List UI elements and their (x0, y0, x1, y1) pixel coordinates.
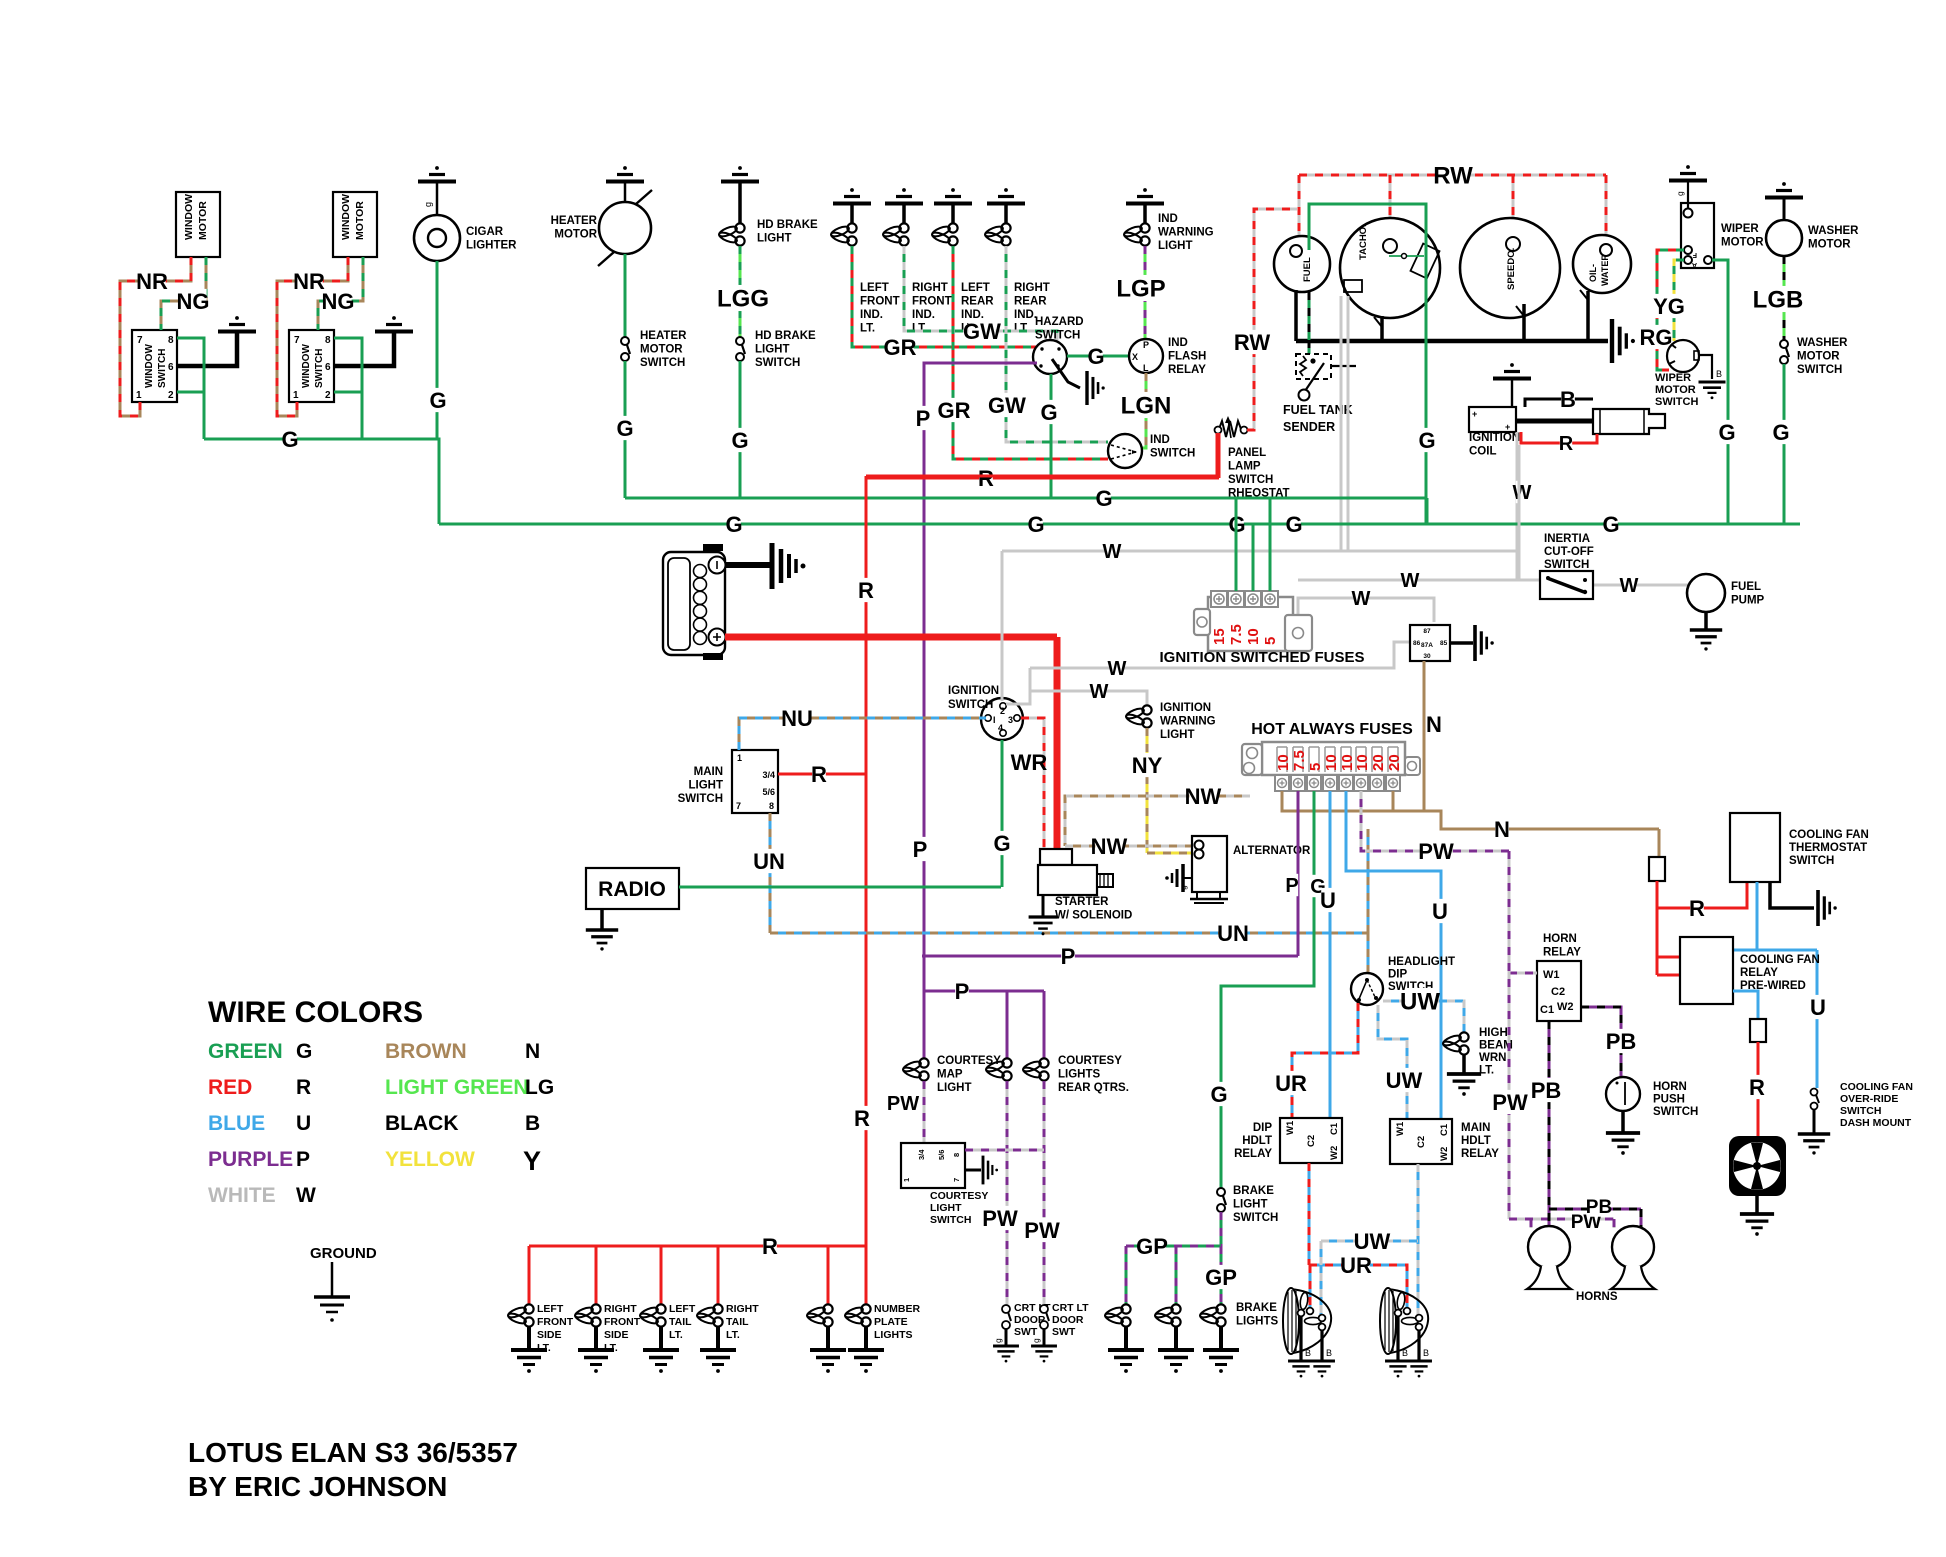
svg-text:DIP: DIP (1253, 1122, 1273, 1134)
svg-text:GR: GR (884, 335, 917, 360)
svg-text:LEFT: LEFT (537, 1303, 564, 1315)
starter body (1038, 865, 1097, 895)
label UN bus (1219, 921, 1246, 945)
W relay86 line (1030, 642, 1410, 668)
brake lamp stem 1 (1124, 1327, 1128, 1349)
side lamp 5 (823, 1304, 832, 1313)
svg-text:FUEL: FUEL (1302, 257, 1313, 282)
brake lamp stem 2 (1174, 1327, 1178, 1349)
fan ground stem (1755, 1196, 1759, 1213)
ignition warning lamp (1142, 705, 1151, 714)
label RW bus (1438, 162, 1468, 188)
svg-text:3: 3 (1008, 715, 1013, 725)
label LGG (721, 285, 766, 311)
svg-text:SWT: SWT (1052, 1326, 1076, 1338)
RW drop speedo (1512, 175, 1515, 238)
svg-text:IND.: IND. (912, 309, 935, 321)
svg-text:MOTOR: MOTOR (354, 201, 366, 240)
svg-text:LOTUS ELAN S3 36/5357: LOTUS ELAN S3 36/5357 (188, 1437, 518, 1468)
hd brake light switch (736, 337, 744, 345)
courtesy light lamp 2 (1039, 1058, 1048, 1067)
label G busA (1097, 486, 1111, 510)
svg-text:WINDOW: WINDOW (144, 344, 155, 388)
svg-text:SWITCH: SWITCH (157, 349, 168, 388)
heater ground (623, 166, 627, 170)
svg-text:WINDOW: WINDOW (340, 194, 352, 240)
svg-text:UN: UN (753, 849, 785, 874)
svg-text:OIL-: OIL- (1588, 264, 1598, 282)
P courtesy drop 1 (1006, 991, 1009, 1062)
svg-text:IND.: IND. (1014, 309, 1037, 321)
side lamp ground 6 (848, 1348, 884, 1352)
cooling connector 2 (1750, 1019, 1766, 1042)
label RW vert (1238, 330, 1265, 354)
svg-text:P: P (916, 406, 931, 431)
label W relay feed (1355, 587, 1367, 609)
speedo drop (1522, 304, 1526, 341)
ign fuse terminal 3 (1245, 591, 1261, 607)
svg-text:W: W (1620, 575, 1639, 597)
svg-text:HEADLIGHT: HEADLIGHT (1388, 956, 1455, 968)
hazard G down (1050, 374, 1053, 498)
ign fuse terminal 1 (1211, 591, 1227, 607)
side lamp stem 5 (826, 1327, 830, 1349)
coil B wire (1525, 399, 1593, 407)
high beam lamp (1459, 1032, 1468, 1041)
side lamp stem 4 (716, 1327, 720, 1349)
label UR dip (1277, 1071, 1304, 1095)
svg-text:HD BRAKE: HD BRAKE (757, 219, 818, 231)
label B coil (1561, 387, 1575, 411)
svg-text:WINDOW: WINDOW (183, 194, 195, 240)
hazard switch body (1033, 340, 1067, 374)
washer G wire (1783, 364, 1786, 524)
svg-text:LIGHTS: LIGHTS (874, 1329, 913, 1341)
wire R rheostat (1218, 433, 1221, 478)
svg-text:UR: UR (1340, 1253, 1372, 1278)
wiper terminal A (1684, 256, 1692, 264)
label G hdbrake (733, 428, 747, 452)
svg-text:LT.: LT. (912, 323, 927, 335)
fuel pump body (1687, 574, 1725, 612)
svg-text:U: U (296, 1112, 311, 1135)
W pin2 branch (1006, 668, 1030, 704)
label PW door1 (986, 1206, 1013, 1230)
svg-text:G: G (1772, 420, 1789, 445)
svg-text:PW: PW (1492, 1090, 1528, 1115)
oil-water gauge (1573, 235, 1631, 293)
cigar ground (435, 166, 439, 170)
svg-text:WARNING: WARNING (1160, 716, 1216, 728)
UR to dip relay (1292, 1003, 1358, 1118)
svg-text:15: 15 (1211, 628, 1228, 645)
hazard lever (1052, 359, 1080, 388)
svg-text:87: 87 (1423, 628, 1431, 635)
override ground (1798, 1132, 1830, 1136)
label R thermo (1690, 896, 1704, 920)
svg-text:GP: GP (1136, 1234, 1168, 1259)
W ignition vertical (1001, 551, 1004, 701)
headlamp1 ground b (1309, 1360, 1335, 1363)
svg-text:SWITCH: SWITCH (1797, 364, 1842, 376)
label W coil (1516, 481, 1528, 503)
svg-text:W: W (1103, 541, 1122, 563)
P courtesy drop 2 (1043, 991, 1046, 1062)
label G washer (1774, 420, 1788, 444)
headlamp left (1290, 1289, 1331, 1353)
svg-text:I: I (993, 715, 996, 725)
svg-text:N: N (1494, 817, 1510, 842)
svg-text:7: 7 (952, 1178, 961, 1182)
speedo gauge (1460, 218, 1560, 318)
N fuse8 wire (1393, 791, 1659, 829)
door switch stem 2 (1043, 1329, 1046, 1345)
label G busB 5 (1604, 512, 1618, 536)
GP switch drop (1220, 1212, 1223, 1246)
wiper switch ground (1699, 381, 1726, 384)
override stem (1813, 1110, 1816, 1133)
radio ground (586, 928, 618, 932)
cigar lighter body (414, 215, 460, 261)
svg-text:SWITCH: SWITCH (1653, 1106, 1698, 1118)
wire NY (1146, 728, 1149, 853)
PW horn vertical (1508, 851, 1511, 1219)
svg-text:P: P (296, 1148, 310, 1171)
label G fuse3 (1312, 875, 1324, 897)
cooling fan override switch (1811, 1089, 1818, 1096)
svg-text:B: B (525, 1112, 540, 1135)
label UW link (1358, 1229, 1385, 1253)
svg-text:W: W (1513, 482, 1532, 504)
UW to highbeam (1383, 1001, 1464, 1032)
battery negative cable (725, 562, 772, 568)
side lamp stem 1 (527, 1327, 531, 1349)
svg-text:C1: C1 (1439, 1123, 1450, 1136)
label GP drop3 (1207, 1265, 1234, 1289)
svg-text:COURTESY: COURTESY (1058, 1055, 1122, 1067)
cooling fan body (1729, 1136, 1786, 1196)
courtesy map light lamp (919, 1058, 928, 1067)
svg-text:SWITCH: SWITCH (678, 793, 723, 805)
battery body (663, 552, 725, 655)
side lamp ground 2 (578, 1348, 614, 1352)
svg-text:LT.: LT. (860, 323, 875, 335)
starter ground stem (1042, 895, 1045, 916)
svg-text:L: L (1143, 363, 1149, 373)
headlamp1 ground a (1288, 1360, 1314, 1363)
svg-text:RELAY: RELAY (1234, 1148, 1272, 1160)
svg-text:OVER-RIDE: OVER-RIDE (1840, 1093, 1898, 1105)
svg-text:SWITCH: SWITCH (1233, 1212, 1278, 1224)
fuel gauge (1274, 236, 1330, 292)
heater motor switch (621, 337, 629, 345)
label NR 2 (295, 269, 322, 293)
svg-text:3/4: 3/4 (917, 1149, 926, 1160)
ign fuse terminal 4 (1262, 591, 1278, 607)
ws2 pin8 wire G (334, 338, 362, 439)
relay85 ground lead (1450, 641, 1473, 645)
svg-text:3/4: 3/4 (762, 770, 775, 780)
svg-text:HEATER: HEATER (551, 215, 598, 227)
svg-text:R: R (854, 1106, 870, 1131)
label P mid (913, 837, 927, 861)
label G radio (995, 831, 1009, 855)
indicator lamp 4 (1001, 223, 1010, 232)
side lamp ground 4 (700, 1348, 736, 1352)
label NU (783, 706, 810, 730)
svg-text:Y: Y (523, 1146, 541, 1176)
svg-text:IND: IND (1168, 337, 1188, 349)
svg-text:G: G (1027, 512, 1044, 537)
svg-text:5: 5 (1307, 763, 1324, 771)
high beam ground (1447, 1072, 1481, 1076)
svg-text:GROUND: GROUND (310, 1245, 377, 1262)
svg-text:10: 10 (1354, 754, 1371, 771)
svg-text:NR: NR (293, 269, 325, 294)
coil ground (1510, 363, 1514, 367)
label PB push (1607, 1029, 1634, 1053)
svg-text:SWITCH: SWITCH (755, 357, 800, 369)
svg-text:WASHER: WASHER (1797, 337, 1848, 349)
svg-text:N: N (1426, 712, 1442, 737)
svg-text:8: 8 (769, 801, 774, 811)
svg-text:SIDE: SIDE (604, 1329, 629, 1341)
svg-text:G: G (1418, 428, 1435, 453)
svg-text:DIP: DIP (1388, 969, 1408, 981)
fuel pump ground stem (1704, 612, 1708, 629)
svg-text:WIPER: WIPER (1721, 223, 1759, 235)
crt door switch 1 (1002, 1305, 1010, 1313)
svg-text:SIDE: SIDE (537, 1329, 562, 1341)
svg-text:TAIL: TAIL (726, 1316, 749, 1328)
wiper terminal right (1704, 256, 1712, 264)
svg-text:C1: C1 (1329, 1122, 1340, 1135)
UN bus (770, 932, 1368, 935)
svg-text:R: R (978, 466, 994, 491)
label PW door2 (1028, 1218, 1055, 1242)
R cooling stub1 (1657, 956, 1682, 959)
label G heater (618, 416, 632, 440)
label NG 2 (324, 289, 351, 313)
svg-text:PB: PB (1586, 1197, 1612, 1218)
G fuse3 wire (1221, 791, 1314, 1190)
instrument bus black (1296, 339, 1608, 344)
wire YG (1674, 260, 1684, 341)
svg-text:LIGHTS: LIGHTS (1236, 1316, 1278, 1328)
svg-text:WARNING: WARNING (1158, 227, 1214, 239)
ignition coil box (1469, 407, 1516, 432)
washer ground stem (1783, 198, 1786, 220)
indicator lamp 2 (899, 223, 908, 232)
battery positive cable down (1054, 637, 1061, 851)
oil drop (1586, 291, 1590, 341)
svg-text:TAIL: TAIL (669, 1316, 692, 1328)
window switch 2 (289, 330, 334, 402)
svg-text:SPEEDO.: SPEEDO. (1506, 248, 1517, 290)
headlight dip switch body (1351, 973, 1383, 1005)
svg-text:B: B (1326, 1348, 1332, 1358)
svg-text:5/6: 5/6 (937, 1150, 946, 1160)
label W relay86 (1111, 657, 1123, 679)
label G busB 3 (1230, 512, 1244, 536)
wire LGB (1783, 256, 1786, 341)
R thermo link (1657, 883, 1747, 908)
svg-text:LT.: LT. (1014, 323, 1029, 335)
label R main bottom (855, 1106, 869, 1130)
svg-text:MOTOR: MOTOR (1655, 384, 1696, 396)
label WR (1015, 750, 1042, 774)
svg-text:PB: PB (1531, 1078, 1562, 1103)
label RG (1642, 325, 1669, 349)
svg-text:BRAKE: BRAKE (1233, 1185, 1274, 1197)
P fuse2 wire (1297, 791, 1300, 956)
svg-text:G: G (993, 831, 1010, 856)
svg-text:LIGHT: LIGHT (1158, 240, 1193, 252)
svg-text:W1: W1 (1285, 1120, 1296, 1135)
coil-distributor thick bar (1516, 419, 1593, 424)
svg-text:R: R (762, 1234, 778, 1259)
NW lower (1065, 845, 1193, 848)
svg-text:LIGHT: LIGHT (689, 780, 724, 792)
svg-text:W/ SOLENOID: W/ SOLENOID (1055, 910, 1132, 922)
svg-text:G: G (281, 427, 298, 452)
svg-text:20: 20 (1386, 754, 1403, 771)
wire GW right front (904, 246, 1057, 341)
svg-text:LEFT: LEFT (669, 1303, 696, 1315)
svg-text:7.5: 7.5 (1291, 750, 1308, 771)
wire RG (1657, 250, 1684, 370)
svg-text:MAIN: MAIN (694, 766, 723, 778)
svg-text:RIGHT: RIGHT (726, 1303, 759, 1315)
starter ground (1029, 915, 1058, 918)
label GR lower (940, 398, 967, 422)
label U fuse5 (1433, 899, 1447, 923)
headlamp1 stem a (1299, 1316, 1302, 1360)
brake lamp stem 3 (1219, 1327, 1223, 1349)
svg-text:LGP: LGP (1116, 276, 1165, 303)
brake lamp 1 (1121, 1304, 1130, 1313)
fuel pump ground (1690, 628, 1722, 632)
svg-text:LGG: LGG (717, 286, 769, 313)
brake lamp ground 1 (1108, 1348, 1144, 1352)
svg-text:LIGHTER: LIGHTER (466, 240, 517, 252)
svg-text:SWITCH: SWITCH (1840, 1105, 1881, 1117)
GP drop 3 (1220, 1246, 1223, 1305)
svg-text:R: R (811, 762, 827, 787)
wire R bus rheostat (865, 477, 1219, 480)
svg-text:NUMBER: NUMBER (874, 1303, 920, 1315)
svg-text:1: 1 (902, 1178, 911, 1182)
label PW horn bus (1574, 1210, 1598, 1231)
dip hdlt relay (1280, 1118, 1342, 1163)
svg-text:RIGHT: RIGHT (912, 282, 948, 294)
wire LGN (1142, 373, 1146, 448)
high beam stem (1462, 1055, 1466, 1073)
svg-text:85: 85 (1440, 640, 1448, 647)
svg-text:C1: C1 (1540, 1004, 1554, 1016)
svg-text:COOLING FAN: COOLING FAN (1789, 829, 1869, 841)
brake lamp 3 (1216, 1304, 1225, 1313)
svg-text:U: U (1810, 995, 1826, 1020)
U thermo down (1756, 882, 1759, 950)
RW drop tacho (1389, 175, 1392, 240)
svg-text:IGNITION SWITCHED FUSES: IGNITION SWITCHED FUSES (1159, 649, 1364, 666)
fuel tank sender box (1296, 354, 1331, 379)
svg-text:g: g (993, 1338, 1003, 1343)
side lamp 3 (656, 1304, 665, 1313)
R drop 6 (865, 1246, 868, 1305)
W pair 2 (1348, 296, 1519, 551)
fan ground (1740, 1212, 1774, 1216)
W right segment (1518, 445, 1521, 580)
coil W wire (1516, 432, 1519, 580)
G drop fuse3 (1269, 498, 1272, 591)
svg-text:LIGHT: LIGHT (755, 344, 790, 356)
label UR link (1342, 1253, 1369, 1277)
label G hazard-flasher (1089, 344, 1103, 368)
indicator ground stem 3 (951, 204, 955, 224)
svg-text:CUT-OFF: CUT-OFF (1544, 546, 1594, 558)
svg-text:COURTESY: COURTESY (930, 1190, 988, 1202)
label N relay30 (1427, 712, 1441, 736)
svg-text:G: G (1718, 420, 1735, 445)
ws1 ground (235, 316, 239, 320)
svg-text:HD BRAKE: HD BRAKE (755, 330, 816, 342)
svg-text:10: 10 (1275, 754, 1292, 771)
battery ground (770, 543, 775, 589)
wiper motor switch body (1667, 340, 1699, 372)
hot fuse terminal 5 (1339, 775, 1353, 791)
label NW upper (1189, 784, 1216, 808)
UR link bus (1309, 1265, 1407, 1308)
svg-text:BRAKE: BRAKE (1236, 1302, 1277, 1314)
svg-text:REAR: REAR (1014, 296, 1047, 308)
svg-text:CRT LT: CRT LT (1052, 1302, 1089, 1314)
svg-text:G: G (1087, 344, 1104, 369)
svg-text:SENDER: SENDER (1283, 420, 1335, 434)
label NW lower (1095, 834, 1122, 858)
label UW right (1405, 988, 1435, 1014)
svg-text:R: R (858, 578, 874, 603)
svg-text:LIGHT: LIGHT (757, 233, 792, 245)
svg-text:g: g (423, 202, 433, 207)
hot fuse terminal 4 (1323, 775, 1337, 791)
horn 1 (1528, 1226, 1570, 1268)
svg-text:PW: PW (1418, 839, 1454, 864)
indicator ground stem 4 (1004, 204, 1008, 224)
svg-text:NG: NG (177, 289, 210, 314)
svg-text:PLATE: PLATE (874, 1316, 908, 1328)
svg-text:NW: NW (1185, 784, 1222, 809)
svg-text:10: 10 (1245, 628, 1262, 645)
R lamp bus (529, 1245, 866, 1248)
tacho pointer green (1389, 255, 1424, 257)
svg-text:LAMP: LAMP (1228, 461, 1261, 473)
svg-text:G: G (429, 388, 446, 413)
heater motor body (599, 202, 651, 254)
U relay out (1733, 991, 1758, 1019)
svg-text:7: 7 (736, 801, 741, 811)
label U override (1811, 995, 1825, 1019)
svg-text:CIGAR: CIGAR (466, 226, 504, 238)
svg-text:IND: IND (1150, 434, 1170, 446)
cooling connector 1 (1649, 857, 1665, 881)
svg-text:NU: NU (781, 706, 813, 731)
svg-text:W2: W2 (1329, 1146, 1340, 1160)
svg-text:FLASH: FLASH (1168, 351, 1206, 363)
PW map light wire (923, 1081, 926, 1143)
distributor body (1593, 409, 1665, 434)
